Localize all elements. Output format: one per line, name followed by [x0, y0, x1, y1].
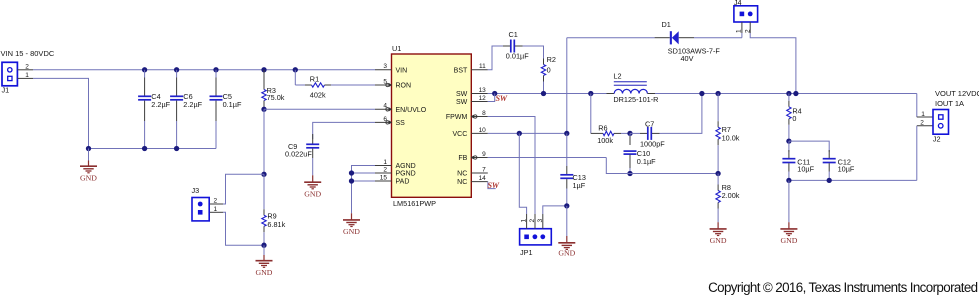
J2 pin 2 lead: [917, 119, 933, 180]
node R9 GND: [261, 243, 266, 248]
ground C11: [780, 180, 797, 245]
capacitor C4: [138, 70, 171, 149]
wire JP1 pin3 to GND node: [543, 206, 567, 214]
svg-text:VOUT 12VDC: VOUT 12VDC: [935, 89, 979, 98]
resistor R6: [591, 123, 630, 145]
svg-text:IOUT 1A: IOUT 1A: [935, 99, 964, 108]
J4 pin 2 lead: [744, 22, 796, 94]
node VIN-R1: [293, 67, 298, 72]
node VOUT-R4: [786, 91, 791, 96]
wire C1 to R2: [523, 46, 544, 59]
node VIN-C4: [142, 67, 147, 72]
svg-text:402k: 402k: [310, 90, 326, 99]
resistor R9: [262, 174, 286, 245]
wire J1 pin1 to GND: [33, 78, 89, 148]
svg-text:PGND: PGND: [396, 171, 416, 178]
capacitor C11: [782, 141, 814, 180]
U1 pin 7 NC: [457, 166, 488, 177]
svg-text:Copyright © 2016, Texas Instru: Copyright © 2016, Texas Instruments Inco…: [708, 280, 978, 295]
svg-text:SW: SW: [488, 181, 500, 190]
ground R9: [256, 245, 273, 277]
node C12 GND: [827, 178, 832, 183]
wire EN to U1: [264, 108, 375, 110]
svg-text:U1: U1: [392, 44, 401, 53]
svg-text:0.1µF: 0.1µF: [637, 157, 656, 166]
ground input: [80, 149, 97, 183]
U1 pin 10 VCC: [453, 127, 488, 138]
svg-text:75.0k: 75.0k: [267, 93, 285, 102]
svg-text:10: 10: [479, 127, 487, 134]
wire AGND-PGND-PAD: [352, 166, 376, 214]
svg-text:13: 13: [479, 87, 487, 94]
svg-text:0.1µF: 0.1µF: [223, 100, 242, 109]
capacitor C5: [210, 70, 242, 149]
svg-text:10µF: 10µF: [797, 165, 814, 174]
node SW-R2: [541, 91, 546, 96]
wire SW to R6: [590, 94, 592, 134]
capacitor C1: [503, 30, 529, 61]
wire input GND rail: [89, 148, 217, 150]
svg-text:11: 11: [479, 63, 486, 70]
node R4-C11: [786, 138, 791, 143]
label copyright: [708, 280, 978, 295]
wire C7 to VOUT: [662, 94, 702, 134]
JP1 pin 2 lead: [529, 214, 536, 229]
ground U1: [343, 213, 360, 236]
svg-text:2: 2: [25, 63, 29, 70]
U1 pin 5 RON: [375, 78, 411, 89]
svg-text:1: 1: [25, 72, 29, 79]
node VCC-C13: [564, 131, 569, 136]
J2 pin 1 lead: [917, 111, 933, 118]
svg-text:R1: R1: [310, 75, 319, 84]
J1 pin 1 lead: [18, 72, 33, 79]
JP1 pin 1 lead: [521, 214, 528, 229]
svg-text:14: 14: [479, 175, 487, 182]
wire R2 to SW: [543, 82, 545, 94]
svg-text:J2: J2: [933, 135, 941, 144]
U1 pin 13 SW: [456, 87, 488, 98]
ground C9: [304, 158, 321, 199]
resistor R1: [295, 70, 375, 100]
wire VCC: [488, 132, 567, 134]
J4 pin 1 lead: [736, 22, 743, 38]
svg-text:GND: GND: [558, 248, 575, 257]
svg-text:SD103AWS-7-F: SD103AWS-7-F: [668, 47, 721, 56]
wire SS to C9: [313, 122, 375, 139]
node VIN-C5: [213, 67, 218, 72]
U1 pin 6 SS: [375, 116, 405, 127]
connector J1: [2, 62, 18, 94]
resistor R8: [716, 174, 740, 223]
svg-text:2: 2: [383, 166, 387, 173]
node PAD: [349, 178, 354, 183]
connector JP1: [520, 229, 552, 257]
svg-text:GND: GND: [343, 227, 360, 236]
resistor R4: [787, 94, 802, 142]
node EN-J3: [261, 172, 266, 177]
wire VOUT rail: [655, 93, 917, 95]
wire VOUT to J2: [916, 94, 918, 118]
node VOUT-R7: [715, 91, 720, 96]
node VOUT-J4: [793, 91, 798, 96]
svg-text:40V: 40V: [681, 54, 694, 63]
svg-text:12: 12: [479, 95, 487, 102]
svg-text:1: 1: [921, 111, 925, 118]
op-amp U1 LM5161PWP body: [392, 44, 472, 208]
node C13 GND: [564, 203, 569, 208]
svg-text:VIN: VIN: [396, 67, 408, 74]
svg-text:10µF: 10µF: [838, 165, 855, 174]
node FB-R7-R8: [715, 171, 720, 176]
node C11 GND: [786, 178, 791, 183]
node VCC-JP1: [517, 131, 522, 136]
JP1 pin 3 lead: [537, 214, 544, 229]
svg-text:3: 3: [537, 219, 544, 223]
svg-text:8: 8: [482, 110, 486, 117]
svg-text:AGND: AGND: [396, 163, 416, 170]
node SW pin13: [492, 91, 497, 96]
svg-text:LM5161PWP: LM5161PWP: [393, 199, 436, 208]
svg-text:JP1: JP1: [520, 248, 533, 257]
wire J3 pin2: [209, 174, 264, 204]
svg-text:2: 2: [214, 198, 218, 205]
connector J2: [933, 110, 949, 144]
node PGND: [349, 170, 354, 175]
svg-text:1: 1: [736, 29, 743, 33]
node EN: [261, 107, 266, 112]
capacitor C13: [560, 133, 586, 206]
svg-text:1000pF: 1000pF: [640, 140, 665, 149]
svg-text:1µF: 1µF: [573, 181, 586, 190]
svg-text:DR125-101-R: DR125-101-R: [613, 95, 658, 104]
resistor R7: [716, 94, 740, 174]
svg-text:R2: R2: [547, 55, 556, 64]
U1 pin 14 NC: [457, 175, 488, 186]
svg-text:2.00k: 2.00k: [722, 191, 740, 200]
inductor L2: [607, 72, 659, 104]
svg-text:R6: R6: [598, 123, 607, 132]
svg-text:1: 1: [383, 159, 387, 166]
resistor R2: [541, 55, 556, 82]
svg-text:7: 7: [482, 166, 486, 173]
svg-text:GND: GND: [304, 190, 321, 199]
svg-text:0: 0: [792, 114, 796, 123]
svg-text:RON: RON: [396, 83, 412, 90]
svg-text:3: 3: [383, 63, 387, 70]
svg-text:6.81k: 6.81k: [267, 220, 285, 229]
node C4 GND: [142, 146, 147, 151]
wire D1 to J4: [694, 37, 742, 39]
node VIN-R3: [261, 67, 266, 72]
wire SW rail: [488, 93, 607, 95]
svg-text:J1: J1: [2, 86, 10, 95]
svg-text:EN/UVLO: EN/UVLO: [396, 107, 427, 114]
svg-text:GND: GND: [256, 268, 273, 277]
svg-text:0.022uF: 0.022uF: [285, 150, 312, 159]
svg-text:0.01µF: 0.01µF: [506, 52, 529, 61]
wire SW pin12 link: [488, 94, 495, 102]
U1 pin 8 FPWM: [446, 110, 488, 121]
wire output GND rail: [789, 179, 917, 181]
wire VCC to D1 riser: [566, 38, 568, 134]
node input GND: [86, 146, 91, 151]
svg-text:15: 15: [380, 174, 388, 181]
net label SW: [496, 94, 508, 103]
svg-text:SW: SW: [496, 94, 508, 103]
U1 pin 15 PAD: [375, 174, 409, 185]
capacitor C7: [630, 120, 665, 149]
node SW-R6: [588, 91, 593, 96]
connector J3: [192, 186, 210, 221]
U1 pin 9 FB: [458, 151, 487, 162]
node C6 GND: [174, 146, 179, 151]
node VOUT-C7: [699, 91, 704, 96]
svg-text:VCC: VCC: [453, 131, 468, 138]
wire BST riser: [488, 46, 506, 70]
label VIN 15 - 80VDC: [1, 49, 55, 58]
svg-text:1: 1: [521, 219, 528, 223]
svg-text:1: 1: [214, 206, 218, 213]
svg-text:J3: J3: [192, 186, 200, 195]
svg-text:SW: SW: [456, 99, 468, 106]
svg-text:2.2µF: 2.2µF: [183, 100, 202, 109]
svg-text:10.0k: 10.0k: [722, 133, 740, 142]
svg-text:2: 2: [744, 29, 751, 33]
svg-text:GND: GND: [710, 236, 727, 245]
svg-text:C7: C7: [645, 120, 654, 129]
J1 pin 2 lead: [18, 63, 33, 70]
wire EN down: [263, 109, 265, 174]
U1 pin 2 PGND: [375, 166, 416, 177]
U1 pin 3 VIN: [375, 63, 407, 74]
svg-text:NC: NC: [457, 171, 467, 178]
wire VIN rail: [33, 69, 375, 71]
svg-text:C1: C1: [509, 30, 518, 39]
U1 pin 12 SW: [456, 95, 488, 106]
svg-text:J4: J4: [734, 0, 742, 7]
svg-text:VIN 15 - 80VDC: VIN 15 - 80VDC: [1, 49, 55, 58]
svg-text:D1: D1: [662, 20, 671, 29]
svg-text:L2: L2: [613, 72, 621, 81]
svg-text:100k: 100k: [597, 136, 613, 145]
svg-text:2.2µF: 2.2µF: [151, 100, 170, 109]
ground R8: [710, 222, 727, 245]
U1 pin 4 EN/UVLO: [375, 103, 427, 114]
capacitor C9: [285, 134, 319, 159]
node R6-C7: [627, 131, 632, 136]
ground JP1: [558, 206, 575, 257]
capacitor C12: [823, 150, 855, 180]
svg-text:5: 5: [383, 78, 387, 85]
wire J3 pin1: [209, 206, 264, 245]
capacitor C10: [624, 133, 657, 173]
svg-text:2: 2: [529, 219, 536, 223]
svg-text:0: 0: [547, 66, 551, 75]
svg-text:SS: SS: [396, 120, 406, 127]
wire FPWM to JP1 pin2: [488, 117, 535, 215]
svg-text:SW: SW: [456, 91, 468, 98]
svg-text:6: 6: [383, 116, 387, 123]
wire VCC to JP1 pin1: [519, 133, 526, 214]
svg-text:NC: NC: [457, 179, 467, 186]
resistor R3: [262, 70, 285, 110]
diode D1: [655, 20, 721, 63]
svg-text:FB: FB: [458, 155, 467, 162]
svg-text:9: 9: [482, 151, 486, 158]
net label SW at NC14: [488, 181, 500, 190]
node VIN-C6: [174, 67, 179, 72]
label VOUT 12VDC: [935, 89, 979, 108]
svg-text:FPWM: FPWM: [446, 114, 468, 121]
U1 pin 11 BST: [454, 63, 488, 74]
svg-text:PAD: PAD: [396, 179, 410, 186]
wire D1 left: [567, 37, 655, 39]
svg-text:2: 2: [920, 119, 924, 126]
svg-text:BST: BST: [454, 67, 468, 74]
capacitor C6: [170, 70, 203, 149]
connector J4: [734, 0, 758, 22]
U1 pin 1 AGND: [375, 159, 416, 170]
wire R4 to C12: [789, 141, 829, 152]
svg-text:GND: GND: [780, 236, 797, 245]
node C10-FB: [627, 171, 632, 176]
svg-text:4: 4: [383, 103, 387, 110]
wire FB: [488, 158, 718, 174]
svg-text:GND: GND: [80, 174, 97, 183]
